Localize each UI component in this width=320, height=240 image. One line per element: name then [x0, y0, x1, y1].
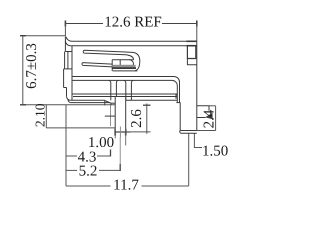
lip base shelf — [65, 51, 72, 53]
dimension 1.00 left tick — [114, 129, 116, 136]
bottom dims common left extension — [65, 105, 67, 186]
terminal box top — [112, 59, 133, 61]
pin step line left — [105, 115, 115, 117]
svg-text:2.10: 2.10 — [33, 103, 48, 127]
dimension 2.10 vertical line — [45, 105, 47, 128]
dimension 11.7 line — [66, 185, 111, 187]
right housing post — [124, 80, 134, 100]
dimension 6.7 bottom tick — [20, 104, 26, 106]
left latch box mid vertical — [67, 52, 69, 69]
dimension 12.6 REF line right segment — [162, 23, 197, 25]
interior shelf bottom line — [72, 79, 172, 81]
dimension 2.4 vertical line — [215, 106, 217, 131]
svg-text:11.7: 11.7 — [113, 178, 139, 194]
terminal box bottom thick — [112, 67, 136, 69]
dimension 1.50 arrow at pad bottom — [205, 113, 213, 119]
left lower wall outer — [63, 69, 65, 88]
terminal U-bend inner — [126, 55, 134, 60]
tab top thick segments — [187, 40, 197, 42]
back-right foot top — [180, 130, 197, 132]
dimension 2.6 bottom extension — [126, 131, 151, 133]
body bottom line right — [126, 99, 178, 101]
extension below pin right — [125, 132, 127, 146]
extension line 12.6 right (down to body top) — [196, 24, 198, 42]
dimension 1.00 right tick — [125, 129, 127, 136]
left wall lower vertical — [66, 88, 68, 97]
front pin fold line — [119, 127, 121, 138]
foot step vertical a — [104, 100, 106, 105]
back-right foot bottom — [181, 132, 197, 134]
housing top-left lip outer curve — [66, 37, 72, 42]
back-right foot toe — [180, 131, 181, 134]
inner left wall — [71, 46, 73, 101]
dimension 4.3 right tick — [110, 150, 112, 157]
dimension 6.7 top tick — [20, 35, 26, 37]
housing top-left lip left edge — [64, 36, 66, 51]
dimension 12.6 REF line left segment — [65, 23, 103, 25]
dimension 2.10 bottom extension — [46, 127, 117, 129]
dimension 2.4 top extension — [209, 105, 216, 107]
back pin left edge — [179, 103, 181, 131]
dimension 1.00 line — [116, 131, 131, 133]
housing top-left lip inner curve — [65, 41, 70, 46]
extension below pin left — [114, 132, 116, 139]
front pin strip — [115, 97, 126, 132]
dimension 2.6 top tick — [143, 104, 151, 106]
dimension 5.2 line — [66, 169, 77, 171]
extension 5.2 from leg — [119, 138, 121, 165]
dimension 1.50 leader — [194, 133, 202, 147]
left latch box bottom — [64, 68, 72, 70]
terminal contact plate shading — [113, 65, 136, 68]
svg-text:5.2: 5.2 — [79, 164, 98, 180]
svg-text:1.50: 1.50 — [202, 143, 228, 159]
left housing post — [109, 80, 119, 100]
seating plane line under body — [66, 104, 117, 106]
bottom step line to pin — [111, 102, 115, 104]
dimension 2.4 bottom extension — [197, 130, 216, 132]
terminal box bottom outer — [113, 70, 138, 72]
foot step vertical b — [110, 103, 112, 105]
left latch box outer vertical — [64, 52, 66, 69]
front pin (drawn with white fill to cover crossing lines) — [105, 97, 126, 138]
dimension 2.6 vertical line — [146, 104, 148, 134]
dimension 6.7±0.3 vertical line — [23, 36, 66, 105]
right solder pad — [197, 106, 209, 111]
bottom-left foot arc — [67, 96, 71, 100]
extension 4.3 from foot step — [110, 105, 112, 126]
dimension 4.3 line — [66, 155, 77, 157]
interior shelf right rounded corner outer — [174, 77, 180, 103]
terminal upper beam — [83, 50, 133, 55]
top right tab — [187, 46, 195, 59]
svg-text:2.4: 2.4 — [201, 109, 217, 128]
terminal D-curl — [120, 60, 133, 68]
dimension 12.6 right end tick — [196, 21, 198, 27]
interior shelf top line — [72, 76, 174, 78]
terminal U-bend outer — [133, 52, 140, 70]
top right tab step — [187, 59, 196, 65]
terminal box left edge — [111, 60, 113, 71]
bottom-left foot second line — [68, 100, 110, 103]
svg-text:12.6 REF: 12.6 REF — [104, 15, 162, 31]
interior shelf right rounded corner inner — [172, 80, 177, 102]
body right edge — [196, 41, 198, 130]
terminal lower beam — [82, 63, 112, 67]
housing top inner line — [70, 45, 196, 47]
body bottom line left — [71, 99, 105, 101]
extension line 12.6 left (down to lip top) — [64, 24, 66, 37]
dimension 12.6 left end tick — [64, 21, 66, 27]
extension 11.7 right (from back foot) — [188, 133, 190, 186]
left wall step — [64, 87, 67, 89]
cavity bottom line — [73, 96, 177, 98]
cavity upper floor line — [72, 93, 177, 95]
cavity wall foot bottom — [176, 102, 180, 104]
cavity wall step — [176, 95, 177, 99]
svg-text:2.6: 2.6 — [129, 109, 145, 128]
housing top outer line — [72, 40, 197, 42]
bottom ramp diagonal — [105, 101, 111, 104]
svg-text:6.7±0.3: 6.7±0.3 — [24, 43, 40, 89]
dimension 5.2 right tick — [119, 164, 121, 171]
